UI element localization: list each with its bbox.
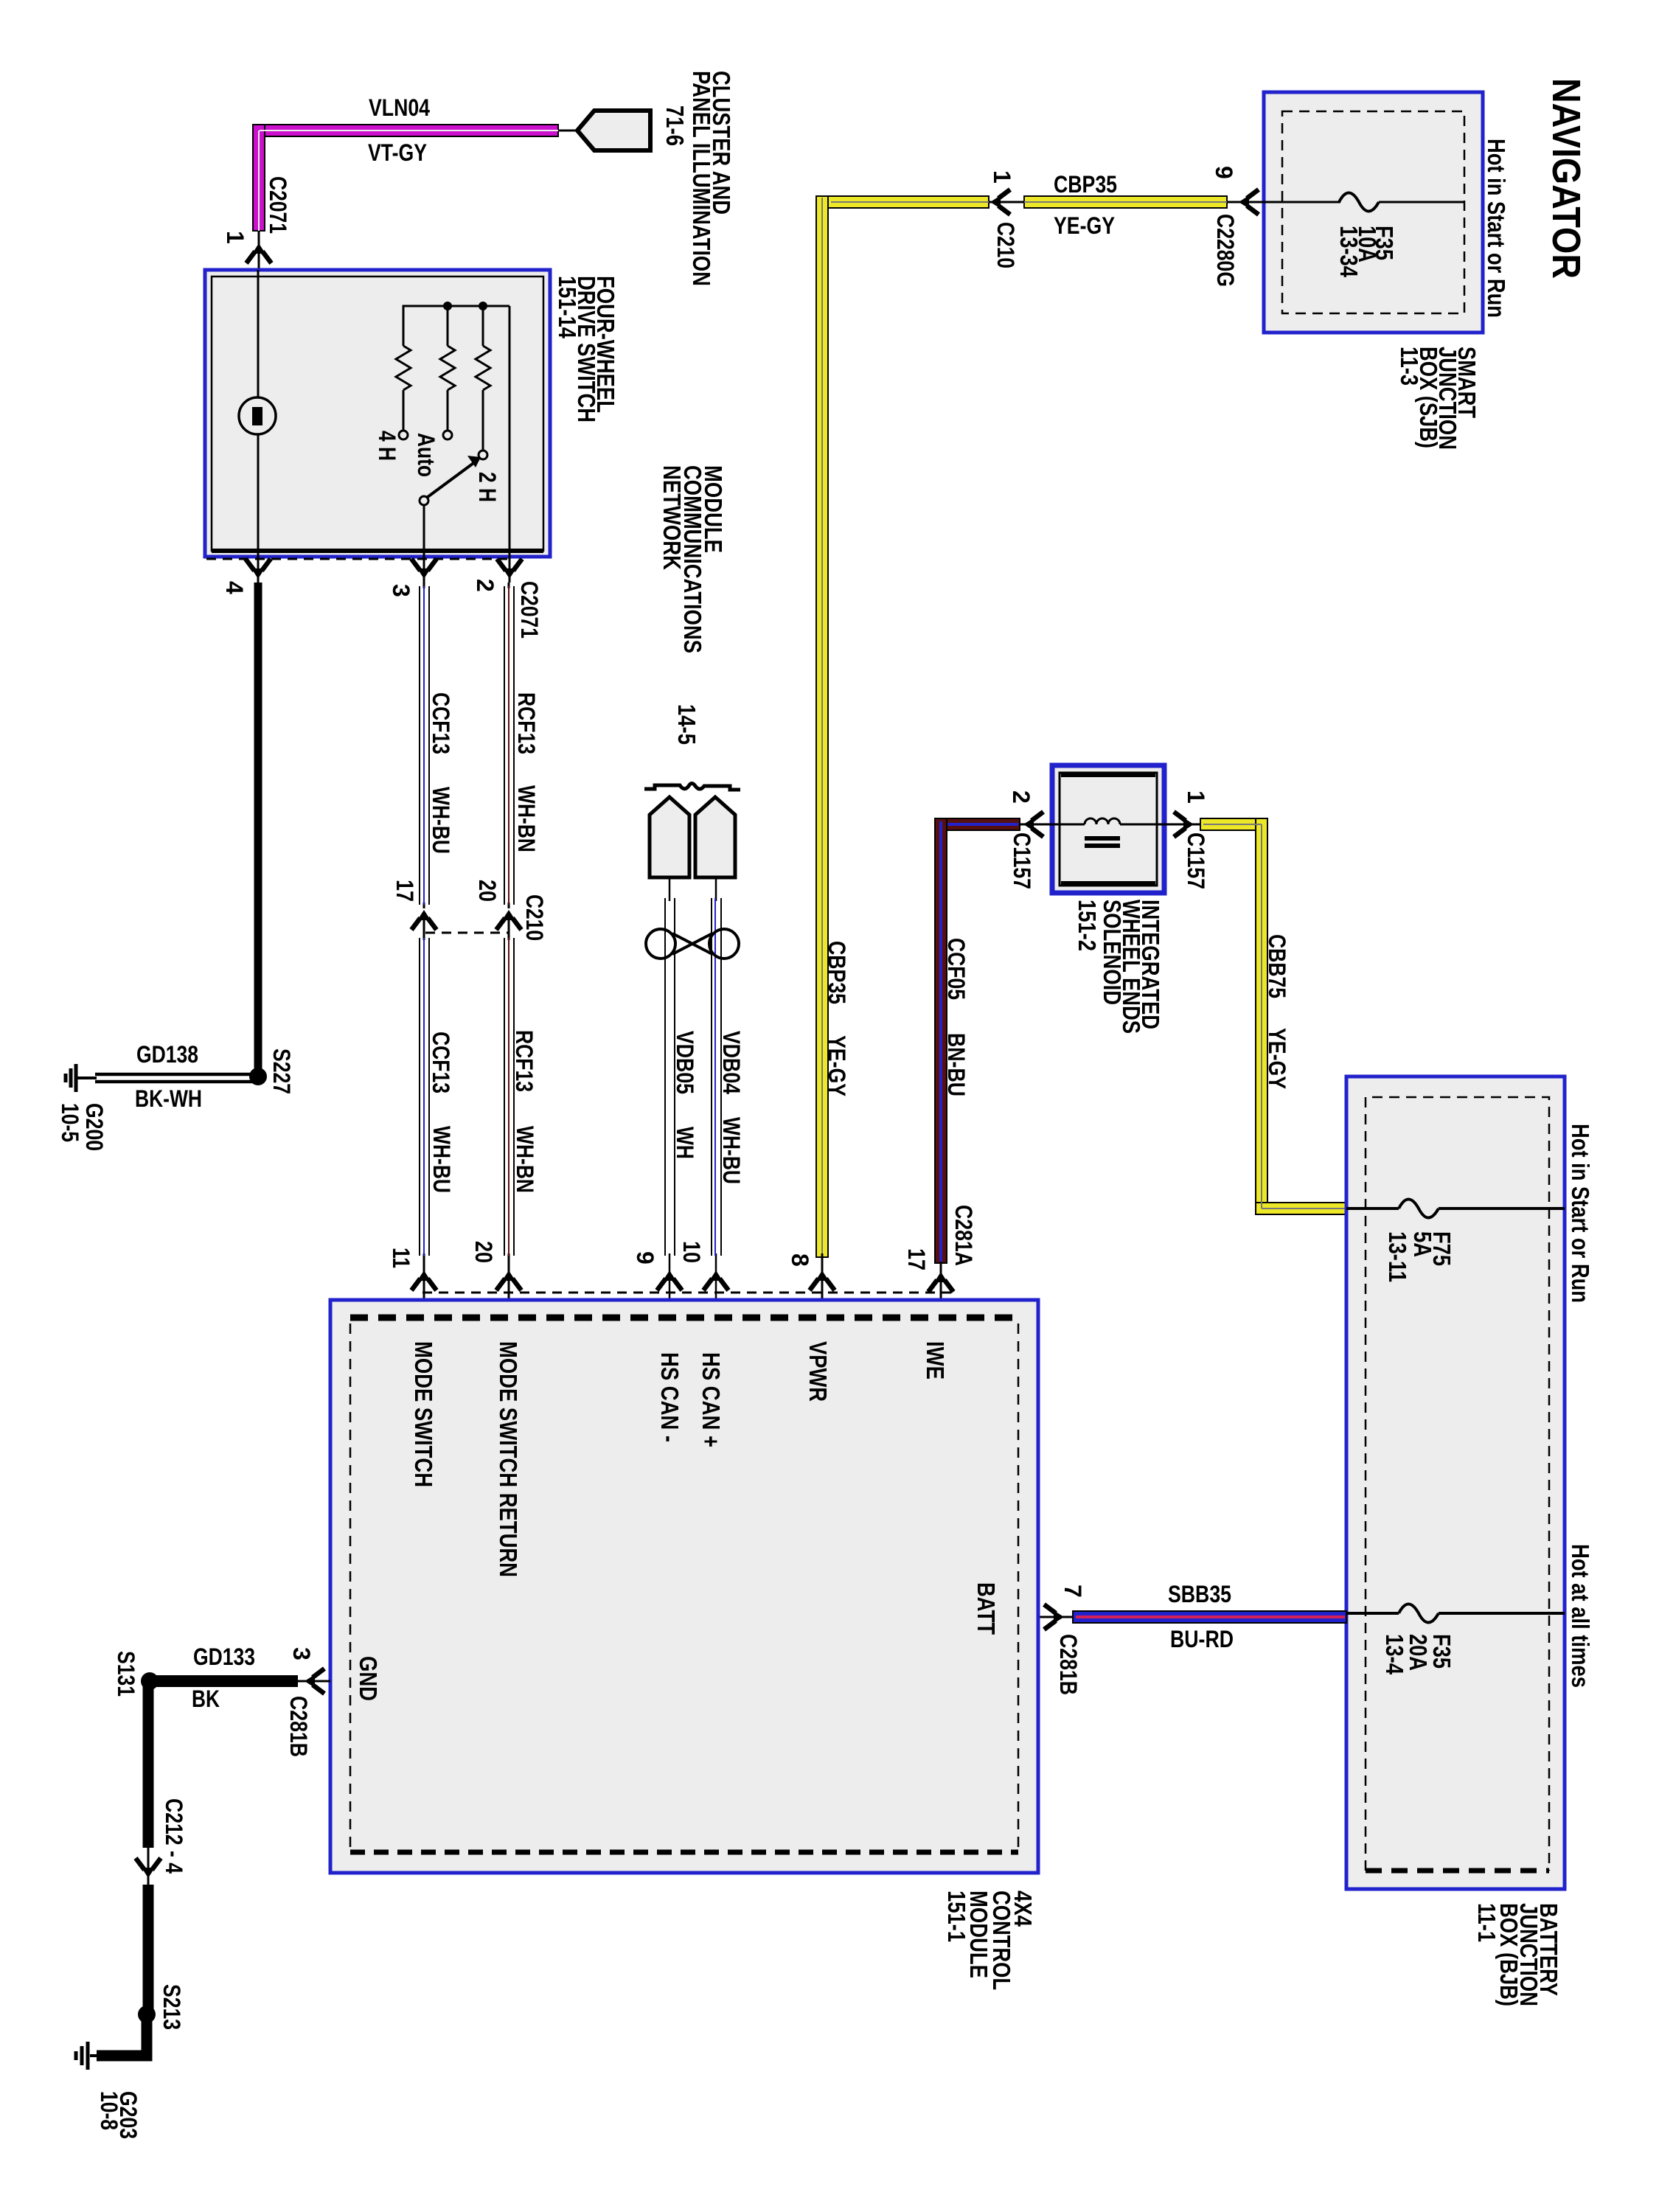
svg-text:4 H: 4 H [374, 431, 400, 461]
svg-text:YE-GY: YE-GY [824, 1035, 850, 1096]
switch pin 2 [472, 551, 522, 592]
battery junction box BJB [1346, 1077, 1565, 1889]
svg-text:CCF13: CCF13 [428, 1032, 454, 1093]
fuse F75 5A [1346, 1200, 1565, 1283]
solenoid coil L1 [1052, 818, 1164, 846]
wire CBP35 YE-GY horizontal [816, 196, 1241, 208]
svg-text:3: 3 [288, 1647, 315, 1660]
svg-text:5A: 5A [1409, 1231, 1436, 1257]
svg-text:Hot in Start or Run: Hot in Start or Run [1483, 139, 1510, 318]
switch blade [420, 456, 481, 551]
svg-text:RCF13: RCF13 [511, 1030, 538, 1092]
SJB name label [1396, 347, 1481, 450]
svg-text:CCF05: CCF05 [943, 938, 970, 1000]
svg-text:MODE SWITCH: MODE SWITCH [410, 1341, 437, 1487]
wire GD133 BK [150, 1675, 298, 1687]
svg-text:CBP35: CBP35 [1054, 171, 1117, 198]
resistor R-Auto [440, 306, 455, 439]
svg-text:HS CAN -: HS CAN - [656, 1352, 684, 1442]
splice S227 [249, 1068, 267, 1085]
svg-text:BK: BK [192, 1686, 220, 1712]
svg-text:13-11: 13-11 [1384, 1231, 1411, 1282]
svg-text:2: 2 [1008, 790, 1034, 804]
module pin 3 GND connector C281B [285, 1647, 330, 1757]
svg-text:S213: S213 [159, 1984, 185, 2030]
svg-text:C281B: C281B [1055, 1634, 1082, 1695]
svg-text:NAVIGATOR: NAVIGATOR [1544, 78, 1588, 279]
wire VDB05 WH [665, 877, 675, 1318]
svg-text:C212 - 4: C212 - 4 [161, 1798, 187, 1874]
connector C212-4 [136, 1798, 187, 1888]
wire GD138 BK-WH thick vertical [254, 582, 262, 1077]
svg-text:4: 4 [221, 581, 248, 594]
wire RCF13 WH-BN lower segment [504, 913, 514, 1318]
resistor R-2H [476, 306, 490, 459]
splice S131 [141, 1672, 159, 1690]
module pin 9 entry [632, 1251, 682, 1290]
resistor network rail [403, 302, 509, 346]
svg-text:2: 2 [472, 579, 498, 592]
connector C2280G arrow [1239, 189, 1264, 215]
connector C210 white wires [392, 880, 548, 941]
svg-text:11-1: 11-1 [1473, 1903, 1500, 1942]
svg-text:S227: S227 [268, 1048, 295, 1094]
svg-text:Auto: Auto [413, 433, 439, 477]
module pin 8 entry [787, 1253, 835, 1318]
solenoid pin 2 connector C1157 [1008, 790, 1052, 889]
svg-text:14-5: 14-5 [673, 704, 700, 745]
lamp indicator in switch [239, 270, 276, 551]
connector C281A dashed line above module [422, 1292, 951, 1294]
svg-text:C2280G: C2280G [1212, 214, 1239, 287]
svg-text:20: 20 [474, 880, 501, 902]
wire CCF13 WH-BU upper segment [420, 582, 429, 908]
svg-text:1: 1 [1183, 790, 1209, 804]
module pin 10 entry [678, 1241, 728, 1290]
svg-text:WH-BU: WH-BU [428, 1126, 455, 1193]
solenoid pin 1 connector C1157 [1164, 790, 1209, 889]
label CLUSTER AND PANEL ILLUMINATION 71-6 [661, 71, 735, 286]
svg-text:17: 17 [392, 880, 418, 902]
svg-text:10-8: 10-8 [96, 2091, 122, 2130]
svg-text:9: 9 [1211, 166, 1237, 179]
svg-text:8: 8 [787, 1253, 813, 1267]
svg-text:VPWR: VPWR [804, 1341, 832, 1402]
svg-text:SOLENOID: SOLENOID [1099, 900, 1126, 1005]
ground G203 [76, 2042, 100, 2070]
svg-text:20: 20 [470, 1241, 497, 1263]
svg-text:C1157: C1157 [1009, 832, 1035, 889]
svg-text:Hot in Start or Run: Hot in Start or Run [1567, 1124, 1594, 1303]
svg-text:VT-GY: VT-GY [368, 139, 427, 166]
switch right rail to pin 2 [509, 306, 511, 551]
wire RCF13 WH-BN upper segment [504, 582, 514, 908]
smart junction box SJB [1264, 92, 1483, 333]
svg-text:WH-BU: WH-BU [428, 787, 454, 854]
svg-text:WH-BN: WH-BN [513, 785, 540, 852]
connector C210 on yellow wire [989, 170, 1024, 268]
svg-text:C281A: C281A [950, 1205, 977, 1266]
4x4 control module box [330, 1300, 1038, 1873]
svg-text:WH-BU: WH-BU [718, 1117, 745, 1184]
svg-text:RCF13: RCF13 [513, 692, 540, 754]
svg-text:MODE SWITCH RETURN: MODE SWITCH RETURN [495, 1341, 522, 1577]
wire BK down to S213 [143, 1885, 154, 2014]
svg-text:151-14: 151-14 [554, 276, 581, 339]
integrated wheel ends solenoid box [1052, 765, 1164, 893]
svg-text:7: 7 [1060, 1585, 1086, 1598]
svg-text:GD133: GD133 [193, 1644, 255, 1670]
svg-text:YE-GY: YE-GY [1264, 1028, 1290, 1089]
four-wheel drive switch box [205, 270, 550, 557]
svg-text:VDB04: VDB04 [718, 1031, 745, 1094]
svg-text:151-2: 151-2 [1074, 900, 1101, 951]
svg-text:C210: C210 [992, 222, 1019, 268]
svg-text:10: 10 [678, 1241, 705, 1263]
connector C2071 pin 1 arrow [222, 176, 291, 270]
svg-text:C1157: C1157 [1183, 832, 1209, 889]
solenoid name label [1074, 900, 1164, 1034]
splice S213 [138, 2006, 156, 2023]
svg-text:Hot at all times: Hot at all times [1567, 1544, 1594, 1688]
wire VLN04 VT-GY [253, 125, 558, 231]
fuse F35 20A [1346, 1604, 1565, 1675]
svg-text:C210: C210 [521, 894, 548, 941]
switch name label FOUR-WHEEL DRIVE SWITCH 151-14 [554, 276, 619, 422]
svg-text:IWE: IWE [922, 1341, 949, 1380]
label G200 10-5 [57, 1103, 108, 1151]
connector C2071 dashed line under switch [206, 559, 543, 639]
wire CCF05 BN-BU vertical [935, 818, 947, 1263]
svg-text:11: 11 [388, 1248, 414, 1268]
twisted pair symbol [646, 929, 739, 959]
wire GD138 BK-WH double line to ground [95, 1074, 254, 1082]
wire CBB75 YE-GY from solenoid to BJB [1200, 818, 1346, 1214]
module pin 17 entry [903, 1248, 953, 1318]
svg-text:10-5: 10-5 [57, 1103, 83, 1142]
svg-text:2 H: 2 H [474, 472, 501, 502]
wire BK down from S131 [143, 1681, 154, 1848]
svg-text:17: 17 [903, 1248, 930, 1270]
network connector pentagon left [650, 797, 689, 877]
svg-text:S131: S131 [113, 1651, 139, 1697]
svg-text:YE-GY: YE-GY [1054, 212, 1115, 239]
network bus bar [644, 784, 740, 790]
wire BK to ground G203 [97, 2014, 147, 2056]
svg-text:VDB05: VDB05 [672, 1031, 698, 1094]
network connector pentagon right [695, 797, 735, 877]
svg-text:VLN04: VLN04 [369, 94, 430, 121]
wire SBB35 BU-RD [1073, 1611, 1346, 1623]
svg-text:151-1: 151-1 [943, 1891, 970, 1942]
svg-text:WH-BN: WH-BN [512, 1126, 538, 1193]
svg-text:G200: G200 [81, 1103, 108, 1151]
module communications network label [658, 465, 727, 653]
svg-text:SBB35: SBB35 [1168, 1581, 1231, 1607]
svg-text:BU-RD: BU-RD [1170, 1626, 1234, 1652]
wire CCF13 WH-BU lower segment [420, 913, 429, 1318]
svg-text:CCF13: CCF13 [428, 692, 454, 754]
svg-text:CBP35: CBP35 [824, 941, 850, 1004]
resistor R-4H [396, 346, 411, 439]
fuse F35 10A SJB [1264, 193, 1464, 278]
svg-text:GD138: GD138 [136, 1041, 198, 1068]
ground G200 [66, 1064, 97, 1092]
svg-text:C2071: C2071 [265, 176, 291, 234]
switch pin 3 [388, 551, 437, 597]
module pin 7 BATT connector C281B [1038, 1585, 1086, 1695]
module pin 11 entry [388, 1248, 437, 1290]
switch pin 4 [221, 551, 271, 594]
svg-text:1: 1 [222, 231, 248, 244]
svg-text:11-3: 11-3 [1396, 347, 1423, 386]
svg-text:C281B: C281B [285, 1696, 312, 1757]
wire CCF05 BN-BU horizontal [935, 818, 1020, 830]
svg-text:BN-BU: BN-BU [943, 1033, 970, 1096]
svg-text:HS CAN +: HS CAN + [698, 1352, 725, 1447]
svg-text:BATT: BATT [973, 1582, 1000, 1635]
wire CBP35 vertical run [816, 196, 828, 1257]
svg-text:3: 3 [388, 584, 414, 597]
svg-text:PANEL ILLUMINATION: PANEL ILLUMINATION [688, 71, 715, 286]
cluster and panel illumination connector [558, 111, 650, 150]
svg-text:GND: GND [355, 1656, 382, 1701]
svg-text:71-6: 71-6 [661, 105, 689, 146]
svg-text:1: 1 [989, 170, 1015, 184]
svg-text:9: 9 [632, 1251, 658, 1265]
svg-text:CBB75: CBB75 [1264, 934, 1290, 998]
svg-text:WH: WH [672, 1127, 698, 1159]
module pin 20 entry [470, 1241, 521, 1290]
svg-text:13-34: 13-34 [1335, 226, 1363, 278]
svg-text:BK-WH: BK-WH [135, 1085, 202, 1112]
svg-text:C2071: C2071 [516, 581, 543, 639]
svg-text:NETWORK: NETWORK [658, 465, 686, 570]
module name label 4X4 CONTROL MODULE 151-1 [943, 1891, 1037, 1990]
BJB name label [1473, 1903, 1562, 2006]
wire VDB04 WH-BU [712, 877, 721, 1318]
label G203 10-8 [96, 2091, 142, 2139]
svg-text:13-4: 13-4 [1381, 1634, 1408, 1675]
